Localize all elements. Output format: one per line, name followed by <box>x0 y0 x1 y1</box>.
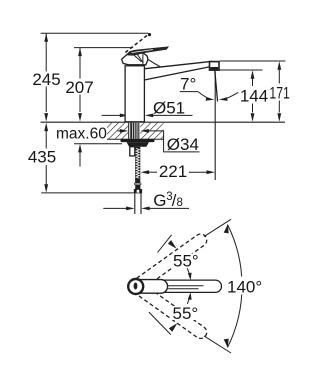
cartridge head <box>122 51 148 65</box>
lower 55 leader arrow to spout edge <box>187 292 191 304</box>
svg-text:171: 171 <box>269 83 289 102</box>
lever blade <box>128 47 169 56</box>
lower radial extension line <box>204 336 231 353</box>
outlet vertical reference line (spout axis extension) <box>214 72 216 181</box>
spout outlet block <box>210 62 220 71</box>
dimension Ø51 right leader with arrow and underline <box>145 114 193 118</box>
7 degree right leader curve with arrow <box>219 92 238 101</box>
white backing for lower 55 label <box>171 306 198 320</box>
dimension 245 vertical line with arrows <box>44 33 48 121</box>
second hose stub <box>130 147 135 156</box>
dimension 207 vertical line with arrows <box>78 48 82 122</box>
max.60 bottom reference line <box>74 143 122 145</box>
svg-text:245: 245 <box>32 70 60 89</box>
raised lever dashed line <box>125 35 147 52</box>
pivot slot <box>134 283 138 290</box>
smooth rod beside shank <box>129 123 131 139</box>
dimension Ø34 right arrow with stepped leader and underline <box>140 129 199 152</box>
white backing for 140 label <box>226 277 262 295</box>
label 7 degrees with underline <box>180 74 198 93</box>
svg-text:Ø51: Ø51 <box>153 99 185 118</box>
svg-text:Ø34: Ø34 <box>167 135 199 154</box>
braided supply hose <box>135 147 140 183</box>
extension line spout top (171) <box>220 60 286 62</box>
lower 55 deg label <box>173 304 199 323</box>
mounting nut <box>127 142 150 147</box>
lower dashed swivel position (spout rotated down 35 deg) <box>126 277 209 341</box>
countertop hatching right of hole <box>140 123 163 139</box>
svg-text:55°: 55° <box>173 251 199 270</box>
label Ø34 <box>167 135 199 154</box>
threaded shank in countertop hole <box>131 123 140 139</box>
dimension 221 horizontal line with arrows <box>141 170 215 174</box>
label max.60 <box>56 125 107 142</box>
label 245 <box>32 70 60 89</box>
svg-text:221: 221 <box>159 162 187 181</box>
mounting washer plate <box>121 139 155 142</box>
upper radial extension line <box>204 219 231 236</box>
spout inner tube lines <box>168 286 203 289</box>
140 arc bottom arrowhead <box>224 339 229 348</box>
max.60 arrow pointing up at reference line <box>78 144 82 167</box>
raised lever tip dot <box>148 33 151 36</box>
upper 55 leader line and arrow to dashed position <box>158 235 177 253</box>
faucet body column <box>125 66 144 122</box>
body and handle top view capsule <box>129 280 168 294</box>
countertop top surface line <box>41 121 285 123</box>
extension line spout outlet bottom (144) <box>216 69 262 71</box>
svg-text:8: 8 <box>177 197 183 209</box>
label 171 <box>269 83 289 102</box>
upper dashed swivel position (spout rotated up 35 deg) <box>126 232 209 296</box>
140 degree arc <box>228 225 242 348</box>
svg-text:140°: 140° <box>227 277 262 296</box>
extension line for 207 (lever rest level) <box>74 47 133 49</box>
white backing for upper 55 label <box>172 254 199 268</box>
label 144 <box>240 86 268 105</box>
extension line for 245 (raised lever tip level) <box>41 32 149 34</box>
svg-text:max.60: max.60 <box>56 125 107 142</box>
spout tube <box>145 61 213 80</box>
shoulder between head and spout <box>148 59 161 67</box>
countertop hatching left of hole <box>107 123 128 139</box>
pivot ring <box>128 279 143 294</box>
upper 55 deg label <box>173 251 199 270</box>
svg-text:G: G <box>153 191 166 210</box>
label G 3/8 <box>153 191 183 210</box>
countertop bottom line <box>107 138 163 140</box>
svg-text:435: 435 <box>28 147 56 166</box>
hose end piece <box>135 185 140 189</box>
label Ø51 <box>153 99 185 118</box>
spout top view capsule <box>128 280 221 292</box>
7 degree left leader curve with arrow <box>198 92 214 101</box>
connector tube <box>135 193 141 214</box>
dimension Ø34 left leader with arrow <box>117 129 128 133</box>
svg-text:207: 207 <box>65 78 93 97</box>
extension line hose end (bottom reference of 435) <box>41 192 134 194</box>
hose collar <box>135 183 141 185</box>
label 207 <box>65 78 93 97</box>
140 arc top arrowhead <box>224 224 229 233</box>
dimension 171 vertical line with arrows <box>277 61 281 121</box>
label 140 degrees <box>227 277 262 296</box>
G3/8 right leader with arrow and underline <box>141 207 189 211</box>
label 435 <box>28 147 56 166</box>
dimension 435 vertical line with arrows <box>44 123 48 193</box>
svg-text:144: 144 <box>240 86 268 105</box>
svg-text:7°: 7° <box>180 74 196 93</box>
G3/8 connector nut <box>134 189 142 193</box>
G3/8 left leader with arrow <box>103 207 134 211</box>
outlet 7 degree tilted line <box>215 71 218 102</box>
upper 55 leader arrow to spout edge <box>187 268 191 280</box>
svg-text:55°: 55° <box>173 304 199 323</box>
lower 55 leader line and arrow to dashed position <box>149 312 178 335</box>
dimension Ø51 left leader with arrow <box>102 114 129 118</box>
label 221 <box>159 162 187 181</box>
dimension 144 vertical line with arrows <box>251 70 255 122</box>
